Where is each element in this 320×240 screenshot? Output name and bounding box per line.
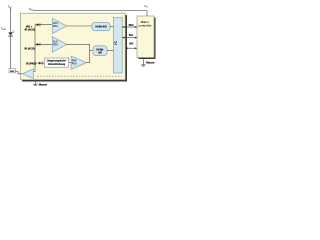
svg-text:DRV: DRV — [10, 71, 15, 73]
svg-text:14-Bit-A/D: 14-Bit-A/D — [95, 26, 107, 29]
svg-text:SDA: SDA — [129, 24, 134, 27]
svg-text:PKE: PKE — [72, 61, 77, 63]
svg-text:controller: controller — [138, 23, 152, 27]
svg-text:INT: INT — [129, 43, 133, 46]
svg-text:Masse: Masse — [39, 83, 48, 87]
svg-text:I²C: I²C — [114, 40, 118, 45]
svg-text:ALS: ALS — [53, 40, 58, 43]
svg-text:IR (PKE): IR (PKE) — [26, 62, 36, 65]
svg-text:Masse: Masse — [146, 61, 155, 65]
svg-text:IR (ACS): IR (ACS) — [25, 28, 35, 31]
svg-text:PGA: PGA — [53, 25, 58, 28]
svg-text:A/D: A/D — [98, 52, 102, 55]
svg-text:PGA: PGA — [53, 44, 58, 47]
svg-text:ACS: ACS — [53, 22, 58, 25]
svg-text:IR (ACS): IR (ACS) — [25, 47, 35, 50]
svg-text:SCL: SCL — [129, 34, 134, 37]
svg-text:Unterdrückung: Unterdrückung — [48, 63, 66, 66]
svg-text:PGA: PGA — [72, 63, 77, 66]
